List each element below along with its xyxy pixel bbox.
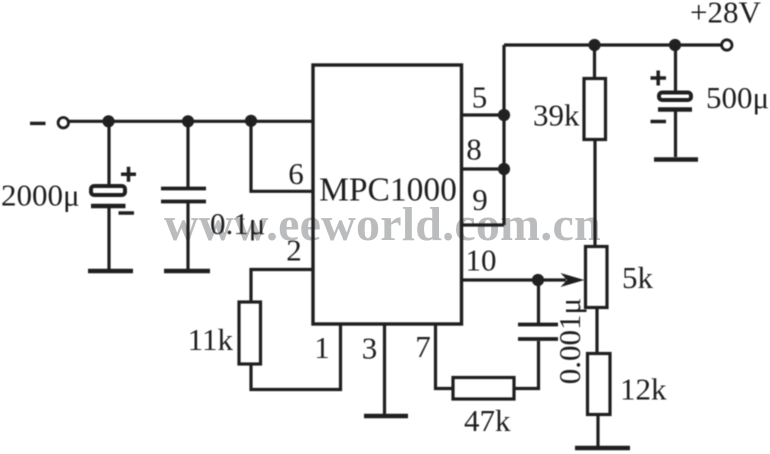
input terminal (58, 118, 68, 128)
capacitor C4 0.001μ (518, 280, 558, 339)
ground (pin 3) (364, 414, 408, 419)
pin 2 label (286, 233, 302, 268)
pin 10 label (466, 243, 497, 278)
wire top supply rail (504, 43, 723, 46)
wire pin 8 stub (462, 167, 505, 170)
label 500μ (706, 80, 769, 115)
svg-text:12k: 12k (620, 372, 667, 407)
node J6 (498, 163, 510, 175)
svg-text:2: 2 (286, 233, 302, 268)
pin 1 label (314, 330, 330, 365)
op-amp U1 MPC1000 (313, 65, 462, 324)
pin 9 label (472, 182, 488, 217)
ground (C3) (654, 157, 698, 162)
wire 12k to ground (596, 415, 599, 447)
wire pin 2 branch (251, 270, 313, 302)
pin 6 label (288, 156, 304, 191)
node J7 (588, 39, 600, 51)
pin 3 label (362, 331, 378, 366)
wiper arrowhead (561, 273, 585, 287)
wire pin 3 to ground (383, 324, 386, 414)
node J8 (669, 39, 681, 51)
svg-text:11k: 11k (188, 322, 234, 357)
resistor R1 11k (239, 302, 261, 364)
node J5 (498, 109, 510, 121)
wire 5k to 12k (595, 308, 598, 354)
wire 11k bottom to pin 1 (251, 324, 341, 390)
resistor R3 39k (584, 79, 606, 140)
svg-text:7: 7 (415, 329, 431, 364)
label 2000μ (1, 178, 80, 213)
label 47k (464, 403, 511, 438)
label 12k (620, 372, 667, 407)
svg-text:39k: 39k (533, 98, 580, 133)
wire 47k to C4 (515, 341, 539, 389)
svg-text:MPC1000: MPC1000 (319, 172, 457, 209)
wire pin 9 stub (462, 223, 505, 226)
svg-text:9: 9 (472, 182, 488, 217)
pin 5 label (472, 80, 488, 115)
svg-text:10: 10 (466, 243, 497, 278)
node J3 (245, 115, 257, 127)
capacitor C2 0.1μ (161, 121, 206, 269)
capacitor C1 2000μ (91, 121, 136, 269)
svg-text:0.001μ: 0.001μ (552, 298, 587, 384)
label 11k (188, 322, 234, 357)
label - (input polarity) (30, 122, 46, 125)
ground (C1) (88, 269, 133, 274)
svg-text:0.1μ: 0.1μ (210, 206, 265, 241)
node J2 (182, 115, 194, 127)
pin 7 label (415, 329, 431, 364)
resistor R5 12k (588, 354, 611, 415)
wire pin 5 stub (462, 113, 505, 116)
wire rail to 39k (593, 45, 596, 77)
svg-text:6: 6 (288, 156, 304, 191)
svg-text:5k: 5k (622, 260, 654, 295)
svg-text:1: 1 (314, 330, 330, 365)
label 0.001μ (552, 298, 587, 384)
svg-text:5: 5 (472, 80, 488, 115)
wire input rail (69, 120, 313, 123)
pin 8 label (466, 131, 482, 166)
svg-text:8: 8 (466, 131, 482, 166)
wire right bus vertical (502, 45, 505, 225)
wire pin 10 wiper (462, 278, 567, 281)
node J1 (102, 115, 114, 127)
label MPC1000 (319, 172, 457, 209)
terminal +28V (722, 40, 732, 50)
ground (C2) (164, 269, 210, 274)
label +28V (690, 0, 761, 30)
label 39k (533, 98, 580, 133)
potentiometer R4 5k (586, 247, 608, 308)
svg-text:+28V: +28V (690, 0, 761, 30)
node J4 (532, 274, 544, 286)
resistor R2 47k (453, 378, 514, 400)
capacitor C3 500μ (651, 45, 693, 157)
ground (12k) (575, 446, 630, 451)
svg-text:47k: 47k (464, 403, 511, 438)
wire 39k to 5k (593, 140, 596, 247)
svg-text:3: 3 (362, 331, 378, 366)
wire pin 7 to 47k (436, 324, 453, 389)
watermark (164, 197, 601, 252)
svg-text:2000μ: 2000μ (1, 178, 80, 213)
label 5k (622, 260, 654, 295)
label 0.1μ (210, 206, 265, 241)
svg-text:500μ: 500μ (706, 80, 769, 115)
wire pin 6 branch (251, 121, 313, 192)
